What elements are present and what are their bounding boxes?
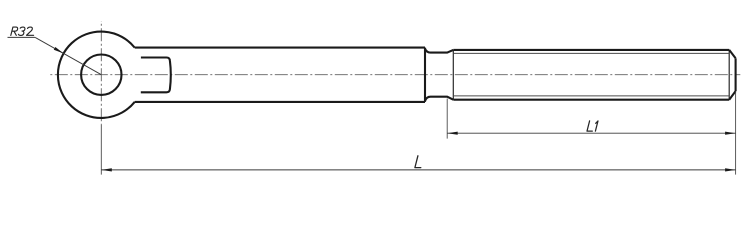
extension line at rod end <box>735 92 737 175</box>
hub boss outline <box>141 58 171 93</box>
chamfer bottom diagonal <box>729 91 735 100</box>
thread root top line <box>454 52 729 54</box>
leader R32 shoulder <box>8 36 36 38</box>
leader R32 arrow <box>54 47 65 55</box>
extension line at thread start <box>446 99 448 139</box>
shank top line <box>135 47 425 49</box>
dimension L1 right arrow <box>725 132 736 135</box>
label L1 <box>587 121 598 131</box>
horizontal centerline <box>50 74 741 76</box>
chamfer start line <box>728 50 730 100</box>
dimension L1 line <box>447 132 735 134</box>
label L <box>415 156 421 168</box>
undercut neck top <box>425 49 453 53</box>
vertical centerline <box>100 21 102 125</box>
dimension L1 left arrow <box>447 132 458 135</box>
shank end face <box>424 48 426 102</box>
rod end face <box>735 58 737 91</box>
thread crest top line <box>453 49 729 51</box>
thread crest bottom line <box>453 99 729 101</box>
chamfer top diagonal <box>729 50 735 58</box>
extension line for L (below eye center) <box>100 125 102 175</box>
eye outer circle <box>58 32 135 118</box>
thread root bottom line <box>454 95 729 97</box>
dimension L left arrow <box>101 168 112 171</box>
thread start line <box>452 50 454 100</box>
shank bottom line <box>135 101 425 103</box>
eye hole (inner circle) <box>81 54 121 94</box>
dimension L line <box>101 169 735 171</box>
undercut neck bottom <box>425 97 453 101</box>
label R32 <box>11 27 34 35</box>
dimension L right arrow <box>725 168 736 171</box>
leader R32 diagonal <box>35 37 101 74</box>
